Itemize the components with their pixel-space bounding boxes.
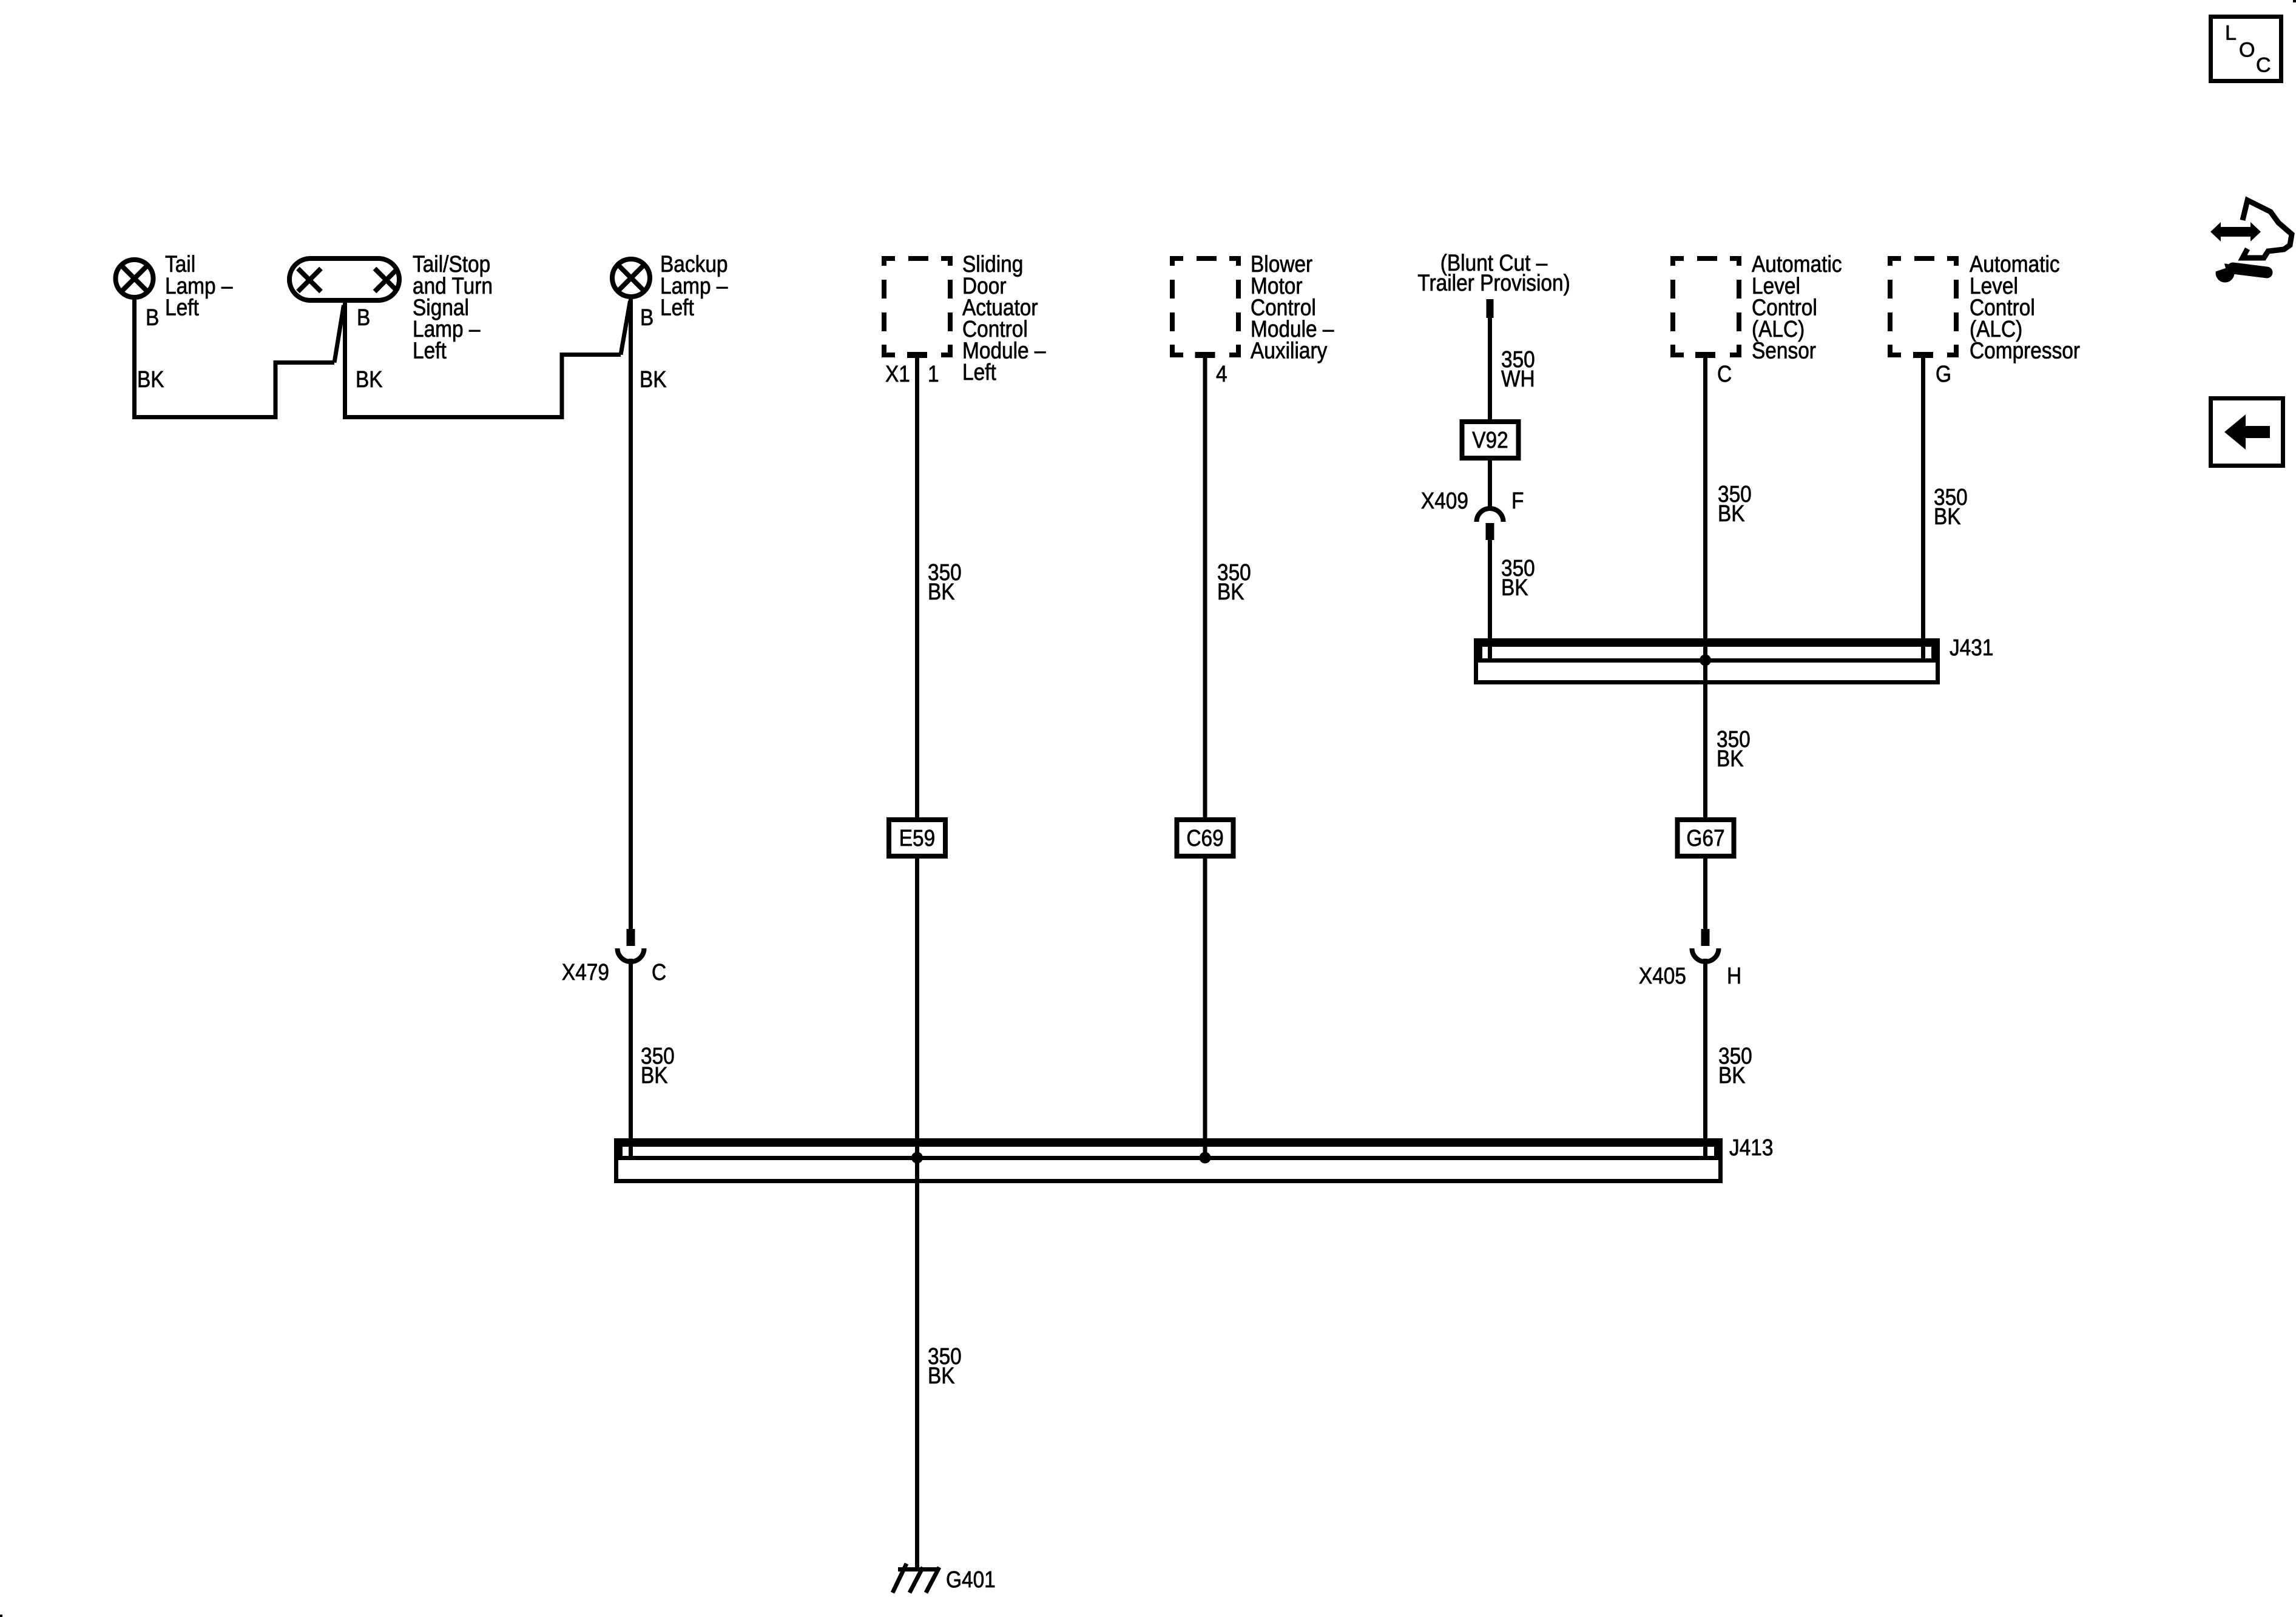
- svg-text:4: 4: [1216, 361, 1227, 387]
- wire: ALC compressor pin G to J431: [1921, 355, 1925, 659]
- wire: blower module to C69: [1203, 355, 1207, 822]
- inline component V92: [1462, 422, 1519, 458]
- svg-text:Left: Left: [165, 294, 199, 320]
- blunt cut terminal: [1487, 299, 1494, 318]
- svg-text:X409: X409: [1421, 488, 1468, 513]
- svg-text:C: C: [2256, 53, 2271, 76]
- label: Tail Lamp - Left text: [165, 251, 233, 320]
- dashed box: Blower Motor Control Module - Auxiliary: [1170, 256, 1241, 357]
- wire label 350 BK (X409 branch): [1501, 555, 1535, 600]
- wire label 350 BK (C69): [1217, 559, 1251, 604]
- svg-text:G: G: [1936, 361, 1951, 387]
- wire label 350 BK (J431 output): [1717, 726, 1751, 771]
- svg-text:Left: Left: [660, 294, 694, 320]
- connector pin bar pin 4: [1195, 352, 1215, 358]
- page artifact dot bottom-left: [0, 1615, 2, 1617]
- connector X479: [562, 929, 666, 985]
- connector pin bar pin G: [1913, 352, 1933, 358]
- connector X409: [1421, 488, 1524, 540]
- svg-text:X1: X1: [885, 361, 910, 387]
- svg-text:1: 1: [928, 361, 939, 387]
- wire label 350 BK (X479 branch): [641, 1043, 675, 1088]
- svg-text:H: H: [1727, 963, 1741, 988]
- label: ALC sensor text: [1752, 251, 1842, 363]
- dashed box: Sliding Door Actuator Control Module - Left: [882, 256, 953, 357]
- svg-text:C: C: [652, 959, 666, 985]
- connector pin bar X1-1: [907, 352, 927, 358]
- wire label 350 BK (sensor): [1718, 481, 1752, 526]
- svg-text:F: F: [1511, 488, 1524, 513]
- label: Sliding door module text: [962, 251, 1046, 385]
- svg-text:BK: BK: [1718, 501, 1745, 526]
- svg-text:WH: WH: [1501, 366, 1535, 391]
- ground G401: [893, 1564, 939, 1593]
- wire: V92 to X409: [1488, 456, 1492, 507]
- pin labels X1 / 1: [885, 361, 939, 387]
- label: ALC compressor text: [1970, 251, 2080, 363]
- wire: X409 to J431: [1488, 540, 1492, 659]
- connector X405: [1639, 929, 1741, 989]
- svg-text:BK: BK: [1717, 746, 1744, 771]
- wire: backup lamp down to X479: [629, 296, 633, 929]
- splice pack J431: [1476, 641, 1938, 683]
- svg-text:Left: Left: [413, 338, 447, 363]
- back arrow box: [2211, 399, 2283, 466]
- junction dot on J431: [1700, 655, 1711, 666]
- wire: blunt cut to V92: [1488, 318, 1492, 422]
- svg-text:X405: X405: [1639, 963, 1686, 988]
- wire: E59 through J413 to G401: [915, 854, 919, 1567]
- svg-text:G401: G401: [946, 1567, 996, 1592]
- wire: G67 to X405: [1703, 854, 1707, 929]
- wire label 350 BK (X405 branch): [1718, 1043, 1752, 1088]
- svg-text:BK: BK: [928, 579, 955, 604]
- svg-text:BK: BK: [1501, 575, 1528, 600]
- lamp: Backup Lamp - Left: [612, 259, 650, 297]
- svg-text:BK: BK: [640, 366, 667, 392]
- label: Backup lamp text: [660, 251, 728, 320]
- svg-text:L: L: [2225, 21, 2237, 44]
- junction dot on J413 (C69 wire): [1200, 1152, 1211, 1164]
- svg-text:BK: BK: [1217, 579, 1244, 604]
- page artifact dot top-right: [2293, 0, 2296, 2]
- svg-text:Left: Left: [962, 359, 996, 385]
- wire: sliding door module to E59: [915, 355, 919, 822]
- svg-text:O: O: [2239, 38, 2255, 61]
- dashed box: Automatic Level Control (ALC) Sensor: [1670, 256, 1741, 357]
- junction dot on J413 (E59 wire): [911, 1152, 923, 1164]
- svg-text:J431: J431: [1950, 635, 1993, 660]
- lamp: Tail Lamp - Left: [116, 260, 154, 297]
- svg-text:BK: BK: [928, 1363, 955, 1388]
- wire: X479 to J413: [629, 959, 633, 1158]
- wire: tail lamp to junction: [132, 297, 344, 419]
- svg-text:BK: BK: [137, 366, 164, 392]
- svg-text:Auxiliary: Auxiliary: [1251, 338, 1327, 363]
- svg-text:V92: V92: [1472, 427, 1508, 453]
- svg-text:X479: X479: [562, 959, 609, 985]
- inline component E59: [889, 820, 945, 856]
- svg-text:B: B: [357, 305, 370, 330]
- svg-text:C69: C69: [1186, 825, 1223, 851]
- lamp: Tail/Stop and Turn Signal Lamp - Left: [289, 258, 399, 300]
- LOC reference box: [2211, 17, 2281, 81]
- svg-text:C: C: [1717, 361, 1732, 387]
- svg-text:BK: BK: [356, 366, 383, 392]
- wire: C69 to J413: [1203, 854, 1207, 1158]
- svg-text:BK: BK: [1934, 504, 1961, 529]
- svg-text:BK: BK: [641, 1062, 668, 1088]
- wire label 350 BK (compressor): [1934, 484, 1968, 529]
- wire: X405 to J413: [1703, 959, 1707, 1158]
- svg-text:J413: J413: [1729, 1135, 1773, 1160]
- dashed box: Automatic Level Control (ALC) Compressor: [1888, 256, 1959, 357]
- svg-text:Sensor: Sensor: [1752, 338, 1816, 363]
- wire label 350 WH: [1501, 346, 1535, 391]
- label: Blunt Cut - Trailer Provision: [1417, 250, 1570, 295]
- svg-text:B: B: [640, 305, 653, 330]
- label: Blower module text: [1251, 251, 1334, 363]
- label: Tail/Stop lamp text: [413, 251, 493, 363]
- service info icon: double arrow, part outline, wrench: [2209, 200, 2292, 283]
- inline component C69: [1177, 820, 1234, 856]
- wire label 350 BK (ground wire): [928, 1343, 962, 1388]
- svg-text:E59: E59: [899, 825, 935, 851]
- wire label 350 BK (E59): [928, 559, 962, 604]
- svg-text:BK: BK: [1718, 1062, 1746, 1088]
- svg-text:Trailer Provision): Trailer Provision): [1417, 270, 1570, 295]
- svg-text:B: B: [146, 305, 159, 330]
- wire: tail/stop lamp to junction: [343, 301, 630, 419]
- svg-text:G67: G67: [1686, 825, 1724, 851]
- wire: ALC sensor pin C through J431 to G67: [1703, 355, 1707, 820]
- svg-text:Compressor: Compressor: [1970, 338, 2080, 363]
- inline component G67: [1678, 820, 1734, 856]
- connector pin bar pin C: [1695, 352, 1715, 358]
- splice pack J413: [616, 1141, 1721, 1181]
- pin labels B and wire labels BK for lamps: [137, 305, 667, 392]
